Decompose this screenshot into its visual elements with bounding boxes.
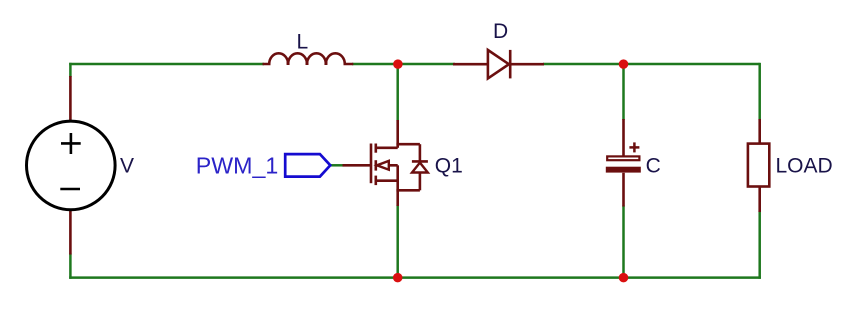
wire top rail right segment (diode to load corner)	[543, 63, 760, 66]
wire capacitor branch top	[622, 64, 625, 120]
wire left vertical (source branch)	[69, 63, 72, 77]
wire top rail left segment	[69, 63, 264, 66]
diode D	[453, 50, 544, 79]
terminal PWM_1	[285, 154, 330, 177]
junction bottom node (source)	[393, 273, 403, 283]
capacitor C	[606, 119, 641, 207]
wire load branch top	[758, 63, 761, 120]
junction top node B (output)	[619, 59, 629, 69]
wire drain vertical (top junction to Q1)	[396, 64, 399, 121]
svg-text:PWM_1: PWM_1	[196, 152, 278, 178]
inductor L	[263, 53, 354, 65]
wire load branch bottom	[758, 211, 761, 279]
svg-text:L: L	[297, 31, 309, 54]
junction bottom node (capacitor)	[619, 273, 629, 283]
wire gate segment (terminal to Q1)	[330, 164, 344, 167]
wire source vertical (Q1 to bottom rail)	[396, 205, 399, 278]
svg-text:D: D	[493, 20, 508, 43]
voltage source V	[27, 76, 116, 255]
svg-text:LOAD: LOAD	[776, 155, 833, 178]
svg-text:Q1: Q1	[435, 154, 463, 177]
svg-text:V: V	[120, 155, 134, 178]
resistor LOAD	[748, 119, 769, 212]
wire bottom rail	[69, 276, 761, 279]
svg-text:C: C	[646, 155, 661, 178]
junction top node A (drain)	[393, 59, 403, 69]
transistor Q1 (NMOS with body diode)	[343, 120, 428, 206]
wire top rail middle segment (inductor to diode)	[352, 63, 455, 66]
wire capacitor branch bottom	[622, 206, 625, 278]
